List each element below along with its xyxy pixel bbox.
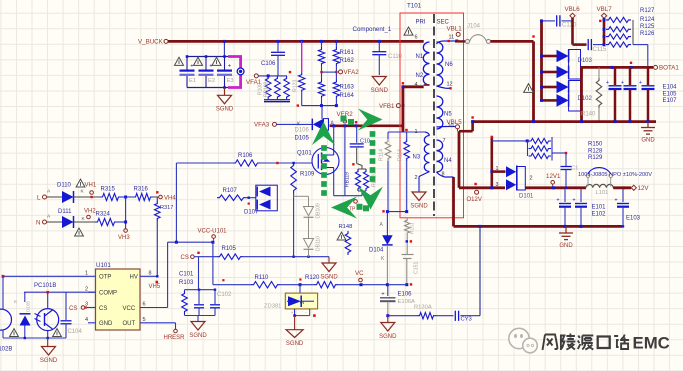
- svg-text:PRI: PRI: [416, 20, 426, 26]
- svg-text:+: +: [639, 80, 642, 86]
- svg-text:+: +: [556, 198, 559, 204]
- svg-text:GND: GND: [641, 138, 655, 144]
- svg-text:R125: R125: [640, 24, 655, 30]
- svg-text:R120: R120: [305, 275, 320, 281]
- svg-text:2: 2: [530, 176, 533, 182]
- svg-text:SGND: SGND: [320, 274, 338, 280]
- svg-text:12V: 12V: [638, 185, 650, 192]
- svg-text:D104: D104: [369, 248, 384, 254]
- svg-text:2: 2: [85, 287, 88, 293]
- svg-text:+: +: [614, 198, 617, 204]
- svg-text:SGND: SGND: [379, 334, 397, 340]
- svg-text:E107: E107: [663, 98, 678, 104]
- svg-text:VH5: VH5: [149, 284, 161, 290]
- svg-text:C106: C106: [261, 61, 276, 67]
- svg-text:N2: N2: [416, 73, 424, 79]
- svg-text:R164: R164: [340, 93, 355, 99]
- svg-text:SGND: SGND: [286, 341, 304, 347]
- svg-text:C101: C101: [179, 272, 194, 278]
- svg-text:E101: E101: [592, 205, 607, 211]
- svg-text:J104: J104: [467, 24, 481, 30]
- svg-text:L101: L101: [596, 190, 609, 196]
- svg-text:11: 11: [449, 34, 455, 40]
- svg-text:R148: R148: [339, 224, 353, 230]
- svg-text:D106: D106: [295, 128, 310, 134]
- svg-text:GND: GND: [559, 243, 573, 249]
- svg-text:VBL7: VBL7: [597, 6, 613, 13]
- svg-text:R109: R109: [300, 172, 315, 178]
- svg-text:5: 5: [143, 317, 146, 323]
- svg-text:BOTA1: BOTA1: [659, 65, 679, 72]
- svg-text:R150: R150: [588, 141, 603, 147]
- svg-text:DB110: DB110: [316, 236, 322, 251]
- svg-text:N5: N5: [444, 112, 452, 118]
- svg-text:O12V: O12V: [467, 197, 482, 203]
- svg-text:Q101: Q101: [297, 151, 312, 157]
- svg-text:N3: N3: [413, 155, 421, 161]
- svg-text:HV: HV: [130, 275, 138, 281]
- svg-text:D102: D102: [578, 96, 593, 102]
- svg-text:CS: CS: [99, 306, 107, 312]
- svg-text:E106: E106: [398, 292, 413, 298]
- svg-text:VCC: VCC: [123, 306, 136, 312]
- svg-text:7: 7: [443, 138, 446, 144]
- svg-text:E102: E102: [592, 212, 607, 218]
- svg-text:C104: C104: [68, 329, 83, 335]
- svg-text:Component_1: Component_1: [353, 26, 392, 33]
- svg-text:CS: CS: [181, 255, 189, 261]
- svg-text:R324: R324: [96, 212, 111, 218]
- svg-text:R114: R114: [379, 149, 385, 161]
- svg-text:EMC: EMC: [633, 334, 670, 353]
- svg-text:+: +: [572, 198, 575, 204]
- svg-text:CS: CS: [69, 306, 77, 312]
- svg-text:C115: C115: [593, 47, 608, 53]
- svg-text:2: 2: [415, 175, 418, 181]
- svg-text:1003-J0805 NPO ±10%-200V: 1003-J0805 NPO ±10%-200V: [578, 172, 652, 178]
- svg-text:R129: R129: [588, 155, 603, 161]
- svg-text:V_BUCK: V_BUCK: [138, 38, 164, 45]
- svg-text:E106A: E106A: [398, 299, 416, 305]
- svg-text:VH2: VH2: [84, 209, 96, 215]
- svg-text:R163: R163: [340, 85, 355, 91]
- svg-text:4: 4: [85, 317, 88, 323]
- svg-text:VBL6: VBL6: [565, 6, 581, 13]
- svg-text:SGND: SGND: [189, 333, 207, 339]
- svg-text:N4: N4: [444, 158, 452, 164]
- svg-text:R107: R107: [223, 188, 238, 194]
- svg-text:R106: R106: [238, 153, 253, 159]
- svg-text:R105: R105: [222, 246, 237, 252]
- svg-text:E104: E104: [663, 85, 678, 91]
- svg-text:R161: R161: [340, 50, 355, 56]
- svg-text:VCC-U101: VCC-U101: [198, 229, 228, 235]
- svg-text:R113: R113: [398, 149, 404, 161]
- svg-text:6: 6: [143, 302, 146, 308]
- svg-text:COMP: COMP: [99, 291, 117, 297]
- svg-text:C1: C1: [571, 166, 578, 172]
- svg-text:R151: R151: [410, 222, 416, 234]
- svg-text:VH1: VH1: [85, 183, 97, 189]
- svg-text:VH3: VH3: [118, 235, 130, 241]
- svg-text:D107: D107: [244, 210, 259, 216]
- svg-text:12: 12: [447, 81, 453, 87]
- svg-text:CY3: CY3: [461, 317, 472, 323]
- svg-text:R316: R316: [134, 187, 149, 193]
- svg-text:VBL5: VBL5: [447, 119, 463, 126]
- svg-text:R127: R127: [640, 8, 655, 14]
- svg-text:VBL1: VBL1: [447, 25, 463, 32]
- svg-text:1: 1: [415, 129, 418, 135]
- svg-text:SGND: SGND: [410, 203, 428, 209]
- svg-text:VFA3: VFA3: [254, 122, 270, 129]
- svg-text:GND: GND: [99, 321, 113, 327]
- svg-text:C102B: C102B: [0, 347, 12, 353]
- svg-text:D103: D103: [578, 58, 593, 64]
- svg-text:E103: E103: [626, 216, 641, 222]
- svg-text:R140: R140: [581, 112, 596, 118]
- svg-text:D101: D101: [519, 194, 534, 200]
- svg-text:R317: R317: [160, 205, 173, 211]
- svg-text:RB119: RB119: [345, 172, 351, 187]
- svg-text:+: +: [291, 310, 294, 315]
- svg-text:C10: C10: [360, 139, 370, 145]
- svg-text:VFB1: VFB1: [379, 103, 395, 110]
- svg-text:VH4: VH4: [164, 195, 176, 201]
- svg-text:RB108: RB108: [264, 81, 270, 97]
- svg-text:C102: C102: [217, 292, 232, 298]
- svg-text:D111: D111: [58, 209, 72, 215]
- svg-text:2: 2: [300, 301, 306, 304]
- svg-text:R162: R162: [340, 58, 355, 64]
- svg-text:+: +: [621, 80, 624, 86]
- svg-text:OTP: OTP: [99, 275, 111, 281]
- svg-text:C120: C120: [562, 22, 577, 28]
- svg-text:T101: T101: [407, 3, 422, 10]
- svg-text:R130A: R130A: [414, 304, 432, 310]
- svg-text:R110: R110: [255, 275, 270, 281]
- svg-text:E3: E3: [227, 78, 234, 84]
- svg-text:D105: D105: [295, 136, 310, 142]
- svg-text:C151: C151: [414, 261, 420, 274]
- svg-text:PC101B: PC101B: [34, 283, 56, 289]
- svg-text:12V1: 12V1: [546, 173, 561, 180]
- svg-text:3: 3: [496, 182, 499, 188]
- svg-text:DB109: DB109: [316, 203, 322, 219]
- svg-text:R123: R123: [293, 79, 299, 92]
- svg-text:+: +: [381, 291, 384, 297]
- svg-text:E1: E1: [189, 78, 196, 84]
- svg-text:R126: R126: [640, 31, 655, 37]
- svg-text:E105: E105: [663, 92, 678, 98]
- svg-text:D110: D110: [57, 183, 72, 189]
- svg-text:U101: U101: [96, 262, 111, 269]
- svg-text:+: +: [606, 80, 609, 86]
- svg-text:R315: R315: [101, 187, 116, 193]
- svg-text:D105: D105: [26, 301, 31, 312]
- svg-text:N6: N6: [445, 62, 453, 68]
- svg-text:N: N: [36, 219, 40, 226]
- svg-text:SGND: SGND: [40, 358, 58, 364]
- svg-text:L: L: [37, 194, 41, 201]
- svg-text:E2: E2: [208, 78, 215, 84]
- svg-text:HRESR: HRESR: [164, 335, 186, 341]
- svg-text:6: 6: [415, 35, 418, 41]
- svg-text:1: 1: [496, 166, 499, 172]
- svg-text:R103: R103: [179, 280, 194, 286]
- svg-text:SGND: SGND: [371, 88, 389, 94]
- svg-text:R128: R128: [588, 148, 603, 154]
- svg-text:VC: VC: [355, 270, 364, 277]
- svg-text:ZD381: ZD381: [264, 304, 281, 310]
- svg-text:N1: N1: [416, 54, 424, 60]
- svg-text:VFA2: VFA2: [344, 69, 360, 76]
- svg-text:OUT: OUT: [123, 321, 136, 327]
- svg-text:SGND: SGND: [216, 107, 234, 113]
- svg-text:R124: R124: [640, 17, 655, 23]
